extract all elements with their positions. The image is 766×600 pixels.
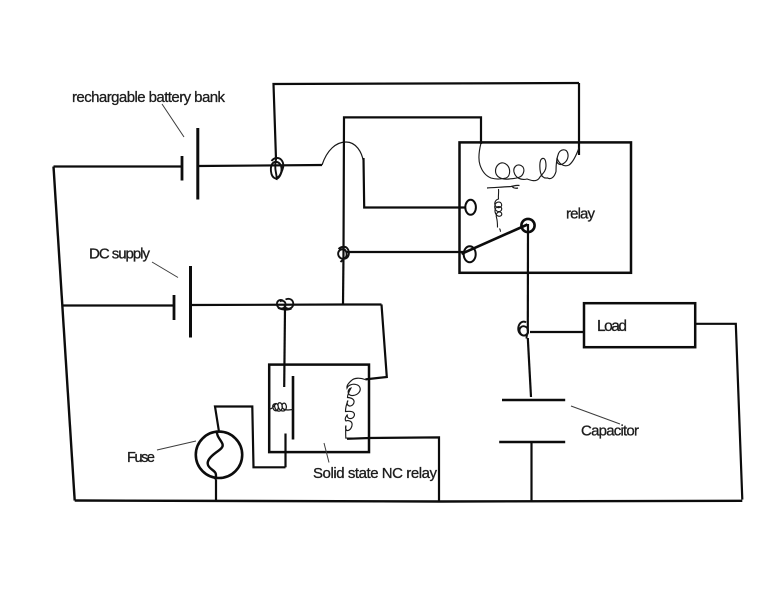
SSR small coil scribble <box>270 403 294 411</box>
relay spring squiggle <box>495 189 502 232</box>
pointer battery bank <box>162 104 184 137</box>
wire left vertical rail <box>54 167 75 501</box>
relay coil scribble <box>479 143 580 181</box>
capacitor bottom plate <box>499 441 565 444</box>
svg-text:Solid state NC relay: Solid state NC relay <box>313 465 438 482</box>
relay NO contact <box>465 200 476 215</box>
relay common contact <box>521 219 534 232</box>
wire junction B to relay NC contact <box>346 251 464 253</box>
fuse circle <box>196 432 242 478</box>
bottom rail <box>75 501 743 502</box>
wire top drop into relay box to coil right end <box>578 83 580 155</box>
wire fuse bottom to rail <box>215 480 217 502</box>
svg-text:Fuse: Fuse <box>127 450 155 466</box>
junction D scribble <box>518 322 528 339</box>
SSR coil scribble right <box>345 378 368 438</box>
pointer SSR <box>324 443 329 463</box>
wire arch drop <box>364 158 466 208</box>
pointer capacitor <box>571 406 620 424</box>
wire battery bank left <box>54 165 183 167</box>
pointer DC supply <box>152 262 178 278</box>
relay box <box>460 142 632 272</box>
junction B scribble <box>338 247 349 262</box>
DC supply left wire <box>62 304 174 306</box>
pointer fuse <box>157 441 196 450</box>
wire junction D down to capacitor <box>528 338 531 397</box>
svg-text:Capacitor: Capacitor <box>581 423 639 440</box>
wire fuse top hook to SSR <box>215 407 286 468</box>
fuse S squiggle <box>208 431 223 480</box>
battery bank long plate <box>196 128 199 200</box>
wire common contact down to junction D <box>527 224 529 332</box>
battery bank short plate <box>181 156 184 181</box>
relay armature dash under coil <box>487 185 520 188</box>
svg-text:rechargable battery bank: rechargable battery bank <box>72 89 226 106</box>
wire load right down to bottom rail <box>695 324 742 500</box>
junction A scribble <box>271 158 284 181</box>
junction C scribble <box>277 299 293 310</box>
svg-text:Load: Load <box>597 318 627 335</box>
wire right drop from DC rail into SSR coil <box>365 305 386 380</box>
wire junction D to load box <box>530 331 584 333</box>
DC supply short plate <box>173 295 176 320</box>
relay NC contact <box>464 246 476 262</box>
capacitor top plate <box>502 399 565 402</box>
DC supply long plate <box>189 266 192 338</box>
wire DC rail down into SSR left contact <box>283 308 286 387</box>
wire battery bank right to junction A and on <box>198 165 322 166</box>
wire top from junction A up and across to relay coil <box>274 83 580 159</box>
SSR coil bottom wire out <box>347 437 439 501</box>
SSR box <box>269 365 369 453</box>
SSR lower stub through box bottom <box>284 434 286 468</box>
svg-text:DC supply: DC supply <box>89 246 151 263</box>
svg-text:relay: relay <box>566 206 596 223</box>
wire junction B down to DC rail <box>342 253 345 305</box>
wire capacitor down to bottom rail <box>530 442 532 502</box>
wire junction B up and across into relay coil left <box>344 117 482 253</box>
load box <box>584 303 695 347</box>
wire arch from junction A to relay NO contact <box>322 142 364 165</box>
relay switch arm <box>462 225 528 254</box>
DC supply right wire through junction C <box>191 303 382 306</box>
SSR left plate <box>292 376 295 440</box>
